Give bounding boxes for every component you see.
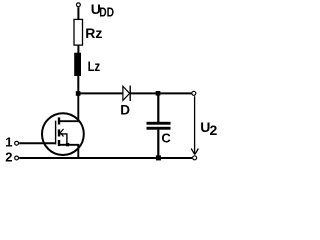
wire	[130, 92, 191, 94]
terminal 1	[15, 141, 19, 145]
wire	[77, 7, 79, 20]
resistor Rz	[74, 19, 83, 45]
bulk contact bar	[58, 129, 60, 136]
wire	[157, 93, 159, 122]
svg-text:C: C	[161, 130, 171, 145]
terminal U2 bottom	[193, 156, 197, 160]
capacitor C	[147, 122, 171, 130]
svg-text:DD: DD	[99, 5, 114, 20]
arrow U2	[191, 96, 198, 154]
svg-text:Rz: Rz	[85, 25, 102, 41]
label U_2	[200, 119, 217, 138]
svg-text:2: 2	[210, 122, 218, 138]
drain contact bar	[58, 117, 60, 124]
terminal UDD	[77, 3, 81, 7]
node capacitor top junction	[156, 91, 161, 96]
transistor Q1 enclosure	[42, 113, 84, 155]
inductor Lz	[74, 53, 81, 76]
terminal 2	[15, 156, 19, 160]
bulk arrow	[60, 129, 63, 137]
svg-text:Lz: Lz	[88, 58, 101, 74]
node capacitor bottom junction	[156, 155, 161, 160]
wire gate lead	[19, 142, 56, 144]
node drain junction	[76, 91, 81, 96]
terminal U2 top	[192, 91, 196, 95]
wire drain vertical	[77, 93, 79, 122]
bulk lead	[60, 134, 67, 145]
diode D	[123, 86, 130, 102]
gate line	[55, 121, 57, 145]
wire source vertical	[77, 145, 79, 158]
svg-text:D: D	[120, 103, 130, 118]
wire bottom rail	[19, 157, 192, 159]
source contact bar	[58, 140, 60, 146]
wire	[157, 130, 159, 158]
source lead	[60, 144, 79, 146]
node bulk-source dot	[66, 143, 69, 146]
label U_DD	[91, 1, 114, 20]
drain lead	[60, 120, 79, 122]
wire	[78, 92, 123, 94]
wire	[77, 45, 79, 53]
svg-text:2: 2	[5, 150, 12, 165]
wire	[77, 76, 79, 94]
svg-text:1: 1	[5, 134, 12, 149]
